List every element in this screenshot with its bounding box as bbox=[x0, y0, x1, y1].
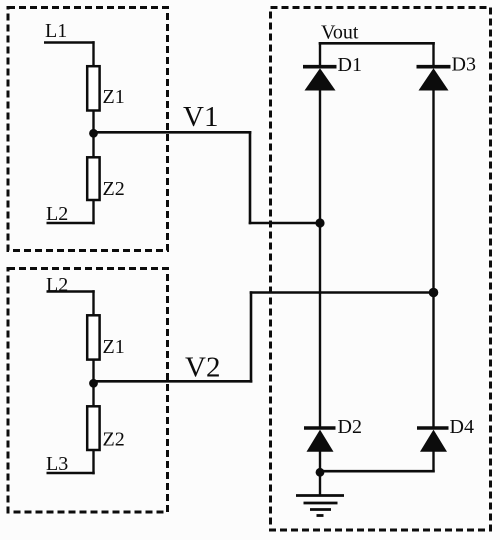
node L3 label bbox=[46, 453, 68, 475]
label D2 bbox=[338, 416, 362, 438]
resistor Z2 (block 2) bbox=[87, 406, 99, 450]
ground bbox=[296, 496, 344, 516]
svg-text:V1: V1 bbox=[183, 101, 218, 133]
wire ground stem bbox=[319, 472, 321, 496]
node L2 label (block 1) bbox=[46, 203, 68, 225]
divider block 1 dashed box bbox=[8, 8, 168, 251]
resistor Z1 (block 2) bbox=[87, 315, 99, 359]
diode D4 bbox=[417, 428, 449, 452]
node L2 label (block 2) bbox=[46, 274, 68, 296]
svg-text:V2: V2 bbox=[185, 352, 220, 384]
svg-text:D1: D1 bbox=[338, 54, 362, 76]
wire V2 vertical rise bbox=[250, 291, 253, 382]
label D4 bbox=[450, 416, 474, 438]
svg-text:D3: D3 bbox=[452, 54, 476, 76]
label D3 bbox=[452, 54, 476, 76]
wire Z1 to node V1 bbox=[92, 110, 94, 135]
junction dot V1 divider bbox=[89, 129, 98, 138]
node Vout label bbox=[321, 22, 359, 44]
svg-text:Z2: Z2 bbox=[103, 178, 125, 200]
label Z1 (block 2) bbox=[103, 336, 125, 358]
wire Z1 to node V2 bbox=[92, 359, 94, 385]
wire D4 bottom lead vertical bbox=[432, 451, 434, 473]
wire Z2 to L3 lead bbox=[92, 449, 94, 474]
wire ground rail horizontal bbox=[320, 470, 435, 473]
wire V2 horizontal from divider bbox=[94, 380, 253, 383]
node L1 label bbox=[45, 20, 67, 42]
wire L1 lead horizontal bbox=[44, 41, 95, 44]
wire node V2 to Z2 (block 2) bbox=[92, 383, 94, 408]
wire V2 horizontal into rectifier bbox=[250, 291, 434, 294]
rectifier block dashed box bbox=[271, 8, 491, 531]
junction dot V2 divider bbox=[89, 379, 98, 388]
diode D3 bbox=[417, 67, 451, 91]
resistor Z2 (block 1) bbox=[87, 157, 99, 200]
wire node V1 to Z2 (block 1) bbox=[92, 133, 94, 158]
wire D1 top lead bbox=[319, 42, 321, 67]
wire D1-D2 branch vertical bbox=[319, 89, 321, 428]
diode D1 bbox=[303, 67, 337, 91]
svg-text:L3: L3 bbox=[46, 453, 68, 475]
diode D2 bbox=[304, 428, 336, 452]
wire Vout top rail bbox=[319, 42, 435, 45]
svg-text:D2: D2 bbox=[338, 416, 362, 438]
wire D2 to ground junction bbox=[319, 451, 321, 475]
wire V1 horizontal from divider bbox=[94, 131, 252, 134]
svg-text:Vout: Vout bbox=[321, 22, 359, 44]
wire V1 vertical drop bbox=[249, 131, 252, 224]
wire D4 branch vertical lower bbox=[432, 292, 434, 428]
label Z2 (block 1) bbox=[103, 178, 125, 200]
resistor Z1 (block 1) bbox=[87, 66, 99, 110]
wire L2 lead horizontal (block 1) bbox=[47, 222, 95, 225]
label V2 bbox=[185, 352, 220, 384]
junction dot V1 on D1-D2 branch bbox=[315, 218, 324, 227]
svg-text:D4: D4 bbox=[450, 416, 474, 438]
svg-text:L1: L1 bbox=[45, 20, 67, 42]
svg-text:Z1: Z1 bbox=[103, 86, 125, 108]
svg-text:Z2: Z2 bbox=[103, 429, 125, 451]
label Z1 (block 1) bbox=[103, 86, 125, 108]
wire D3 top lead bbox=[432, 42, 434, 67]
junction dot ground node bbox=[316, 468, 325, 477]
junction dot V2 on D3-D4 branch bbox=[429, 288, 439, 298]
wire L2 lead vertical (block 2) bbox=[92, 290, 94, 316]
wire L2 lead horizontal (block 2) bbox=[47, 290, 95, 293]
svg-text:L2: L2 bbox=[46, 203, 68, 225]
divider block 2 dashed box bbox=[8, 269, 168, 513]
label V1 bbox=[183, 101, 218, 133]
wire L3 lead horizontal bbox=[47, 472, 95, 475]
svg-text:Z1: Z1 bbox=[103, 336, 125, 358]
wire Z2 to L2 lead (block 1) bbox=[92, 199, 94, 224]
label D1 bbox=[338, 54, 362, 76]
wire L1 lead vertical bbox=[92, 41, 94, 67]
label Z2 (block 2) bbox=[103, 429, 125, 451]
wire V1 horizontal into rectifier bbox=[249, 222, 320, 225]
wire D3 branch vertical upper bbox=[432, 89, 434, 294]
